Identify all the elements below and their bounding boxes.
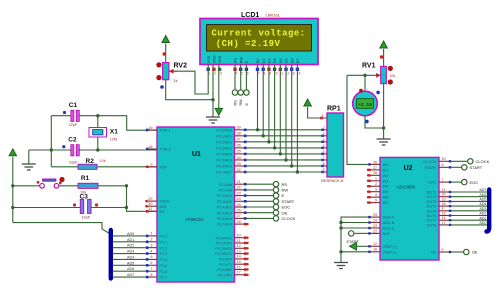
wire OUT2 to bus (AD6) (451, 196, 487, 198)
svg-text:RV2: RV2 (174, 62, 188, 69)
svg-text:RW: RW (239, 57, 243, 64)
svg-text:ADD A: ADD A (383, 216, 395, 220)
terminal RW under LCD (238, 90, 243, 95)
U1 pin XTAL2 (18) (146, 148, 157, 150)
U2 pin ADD A (25) (368, 216, 380, 218)
svg-text:4: 4 (375, 193, 377, 197)
U2 pin OUT2 (20) (439, 196, 451, 198)
power arrow down at VEE (215, 108, 223, 115)
U2 pin OUT7 (14) (439, 219, 451, 221)
svg-text:P0.4/AD4: P0.4/AD4 (216, 153, 232, 157)
U1 pin P3.2/INT0 (12) (235, 247, 247, 249)
svg-text:VDD: VDD (213, 55, 217, 63)
svg-text:ADC0808: ADC0808 (397, 185, 416, 190)
svg-text:AD7: AD7 (127, 273, 134, 277)
svg-text:5: 5 (150, 255, 152, 259)
svg-text:7: 7 (258, 72, 260, 76)
svg-text:AD2: AD2 (127, 244, 134, 248)
RP1 pin 8 (322, 165, 327, 167)
wire VREF(-) to ground rail (341, 251, 368, 253)
U1 pin P0.7/AD7 (32) (235, 171, 247, 173)
op-amp U1 body (AT89C51 MCU) (157, 127, 235, 282)
svg-text:8: 8 (442, 207, 444, 211)
svg-text:29: 29 (148, 197, 152, 201)
svg-text:D0: D0 (256, 58, 260, 63)
wire P0.5 row (247, 159, 323, 161)
svg-text:VREF(+): VREF(+) (383, 245, 399, 249)
wire left power rail (12, 157, 14, 223)
svg-text:10uF: 10uF (82, 215, 91, 219)
RP1 pin 3 (322, 135, 327, 137)
svg-text:P3.6/WR: P3.6/WR (217, 268, 232, 272)
svg-text:CLOCK: CLOCK (423, 160, 437, 164)
svg-text:P0.2/AD2: P0.2/AD2 (216, 140, 232, 144)
RV2 terminal dots (156, 62, 161, 67)
wire LCD D4 vertical (279, 65, 281, 154)
svg-text:P2.5/A13: P2.5/A13 (217, 211, 232, 215)
wire C2 row / XTAL2 (29, 149, 71, 151)
U2 pin ADD C (23) (368, 227, 380, 229)
svg-text:22pF: 22pF (69, 123, 78, 127)
wire P0.3 row (247, 147, 323, 149)
U1 pin P0.5/AD5 (34) (235, 159, 247, 161)
svg-text:IN7: IN7 (383, 201, 389, 205)
svg-text:AD1: AD1 (479, 216, 486, 220)
svg-text:16: 16 (373, 248, 377, 252)
svg-text:3: 3 (220, 72, 222, 76)
svg-text:OE: OE (282, 210, 288, 215)
svg-text:38: 38 (237, 132, 241, 136)
svg-text:AT89C51: AT89C51 (185, 217, 204, 222)
svg-text:37: 37 (237, 138, 241, 142)
svg-text:E: E (245, 103, 249, 106)
svg-text:P2.2/A10: P2.2/A10 (217, 194, 232, 198)
svg-text:P1.2: P1.2 (160, 246, 168, 250)
potentiometer RV1 (381, 66, 387, 83)
svg-text:OUT3: OUT3 (426, 200, 436, 204)
svg-text:22pF: 22pF (69, 161, 78, 165)
wire RV2 bottom to ground node (166, 80, 213, 100)
wire LCD VSS to RV2 wiper (169, 65, 208, 95)
power arrow above RV1 (380, 41, 388, 48)
U1 pin P3.7/RD (17) (235, 274, 247, 276)
svg-text:4: 4 (150, 249, 152, 253)
terminal START at ALE (354, 232, 368, 234)
svg-text:18: 18 (442, 202, 446, 206)
svg-text:15: 15 (442, 211, 446, 215)
svg-text:15: 15 (237, 260, 241, 264)
svg-text:AD6: AD6 (479, 193, 486, 197)
U1 pin P1.2 (3) (146, 247, 157, 249)
svg-text:P2.0/A8: P2.0/A8 (219, 183, 232, 187)
LCD pin state squares and pin numbers (207, 68, 301, 76)
crystal X1 (97, 116, 99, 128)
terminal OE right of U1 (247, 212, 274, 214)
svg-text:18: 18 (148, 145, 152, 149)
svg-text:32: 32 (237, 168, 241, 172)
svg-text:6: 6 (442, 163, 444, 167)
U1 pin P2.6/A14 (27) (235, 217, 247, 219)
svg-text:28: 28 (373, 171, 377, 175)
svg-text:RESPACK-8: RESPACK-8 (321, 178, 344, 183)
U1 pin P1.1 (2) (146, 241, 157, 243)
svg-text:X1: X1 (110, 128, 118, 135)
svg-text:19: 19 (148, 126, 152, 130)
svg-text:U1: U1 (192, 151, 201, 158)
svg-text:IN4: IN4 (383, 185, 389, 189)
wire LCD D2 vertical (268, 65, 270, 142)
svg-text:31: 31 (148, 207, 152, 211)
svg-text:AD0: AD0 (127, 232, 134, 236)
svg-text:P0.1/AD1: P0.1/AD1 (216, 134, 232, 138)
power arrow left rail (9, 149, 17, 156)
U2 pin CLOCK (10) (439, 160, 451, 162)
svg-text:39: 39 (237, 126, 241, 130)
svg-text:P3.3/INT1: P3.3/INT1 (215, 252, 232, 256)
svg-text:5: 5 (375, 199, 377, 203)
wire AD5 from bus to U1 P1.5 (113, 264, 147, 266)
wire OE to terminal (451, 251, 464, 253)
U2 pin VREF(-) (16) (368, 251, 380, 253)
svg-text:OE: OE (431, 251, 437, 255)
wire RV2 top (165, 44, 167, 63)
U1 pin P1.4 (5) (146, 258, 157, 260)
U2 pin OUT6 (15) (439, 215, 451, 217)
svg-text:6: 6 (150, 261, 152, 265)
junction C2/X1 (96, 148, 99, 151)
wire START to terminal (451, 166, 462, 168)
svg-text:ADD C: ADD C (383, 227, 395, 231)
RP1 pin 7 (322, 159, 327, 161)
svg-text:36: 36 (237, 144, 241, 148)
U2 pin OUT8 (17) (439, 224, 451, 226)
U1 pin P0.2/AD2 (37) (235, 141, 247, 143)
svg-text:P1.5: P1.5 (160, 264, 168, 268)
U2 pin OUT1 (21) (439, 191, 451, 193)
U1 pin RST (9) (146, 166, 157, 168)
svg-text:ADD B: ADD B (383, 221, 395, 225)
junction C1/X1 (96, 114, 99, 117)
U1 pin EA (31) (146, 210, 157, 212)
U1 pin P3.4/T0 (14) (235, 258, 247, 260)
RP1 pin 2 (322, 129, 327, 131)
svg-text:33: 33 (237, 162, 241, 166)
svg-text:P2.4/A12: P2.4/A12 (217, 206, 232, 210)
wire wiper to U2 IN0 (347, 75, 368, 164)
U1 pin P2.2/A10 (23) (235, 195, 247, 197)
wire left node vertical (50, 116, 52, 167)
svg-text:P3.4/T0: P3.4/T0 (219, 258, 232, 262)
svg-text:AD3: AD3 (127, 250, 134, 254)
U1 pin P1.0 (1) (146, 235, 157, 237)
svg-text:P1.0: P1.0 (160, 235, 168, 239)
svg-text:D5: D5 (285, 58, 289, 63)
power arrow +5V above RV2 (162, 36, 170, 43)
svg-text:EOC: EOC (470, 180, 479, 185)
wire RV1 wiper row (347, 74, 381, 76)
svg-text:EOC: EOC (428, 181, 436, 185)
svg-text:AD2: AD2 (479, 212, 486, 216)
svg-text:AD5: AD5 (479, 198, 486, 202)
U2 pin IN5 (3) (368, 191, 380, 193)
wire LCD VEE down (218, 65, 220, 109)
svg-text:RST: RST (160, 165, 168, 169)
U1 pin P1.6 (7) (146, 270, 157, 272)
voltmeter probe (364, 75, 366, 91)
svg-text:P1.7: P1.7 (160, 276, 168, 280)
svg-text:C1: C1 (69, 102, 78, 109)
junction C2 left branch (50, 148, 53, 151)
RP1 pin 1 wire to power arrow (308, 107, 327, 118)
U2 pin OUT4 (18) (439, 205, 451, 207)
LCD pin name labels (rotated) (207, 55, 300, 63)
svg-text:U2: U2 (404, 165, 413, 172)
svg-text:26: 26 (237, 209, 241, 213)
terminal E right of U1 (247, 195, 274, 197)
U2 pin IN2 (28) (368, 174, 380, 176)
wire AD3 from bus to U1 P1.3 (113, 253, 147, 255)
svg-text:START: START (346, 239, 359, 244)
svg-text:P2.7/A15: P2.7/A15 (217, 223, 232, 227)
svg-text:25: 25 (237, 203, 241, 207)
svg-text:CLOCK: CLOCK (282, 216, 296, 221)
svg-text:12: 12 (373, 242, 377, 246)
wire LCD RW to terminal (240, 65, 242, 90)
U2 pin IN0 (26) (368, 163, 380, 165)
svg-text:AD3: AD3 (479, 207, 486, 211)
wire P0.7 row (247, 171, 323, 173)
svg-text:IN0: IN0 (383, 163, 389, 167)
svg-text:P3.1/TXD: P3.1/TXD (216, 242, 232, 246)
svg-text:22: 22 (373, 229, 377, 233)
RV1 terminal dots and value (388, 66, 393, 71)
svg-text:P3.5/T1: P3.5/T1 (219, 263, 232, 267)
svg-text:OUT6: OUT6 (426, 214, 436, 218)
U2 pin IN1 (27) (368, 169, 380, 171)
svg-text:D4: D4 (279, 58, 283, 63)
svg-text:START: START (470, 165, 483, 170)
U1 pin ALE (30) (146, 205, 157, 207)
wire AD7 from bus to U1 P1.7 (113, 276, 147, 278)
wire LCD D0 vertical (257, 65, 259, 130)
svg-text:14: 14 (442, 216, 446, 220)
wire LCD D1 vertical (262, 65, 264, 136)
svg-text:R1: R1 (81, 175, 90, 182)
terminal RS under LCD (232, 90, 237, 95)
U2 pin IN3 (1) (368, 180, 380, 182)
svg-text:3: 3 (375, 188, 377, 192)
svg-text:9: 9 (442, 248, 444, 252)
U1 pin P3.1/TXD (11) (235, 242, 247, 244)
svg-text:E: E (282, 193, 285, 198)
svg-text:24: 24 (373, 218, 377, 222)
svg-text:XTAL1: XTAL1 (160, 129, 171, 133)
svg-text:10k: 10k (100, 159, 106, 163)
wire AD6 from bus to U1 P1.6 (113, 270, 147, 272)
svg-text:21: 21 (442, 188, 446, 192)
svg-text:RS: RS (234, 58, 238, 64)
U1 pin P0.4/AD4 (35) (235, 153, 247, 155)
svg-text:2: 2 (150, 238, 152, 242)
svg-text:OE: OE (472, 250, 478, 255)
svg-text:P2.6/A14: P2.6/A14 (217, 217, 232, 221)
svg-text:13: 13 (237, 249, 241, 253)
svg-text:2: 2 (214, 72, 216, 76)
power arrow at VREF(+) (357, 245, 368, 247)
ground under LCD (206, 117, 220, 123)
svg-text:OUT2: OUT2 (426, 195, 436, 199)
svg-text:28: 28 (237, 220, 241, 224)
svg-text:17: 17 (237, 271, 241, 275)
svg-text:RS: RS (234, 100, 238, 106)
svg-text:27: 27 (373, 166, 377, 170)
LCD LCD1 body (200, 19, 318, 65)
wire AD4 from bus to U1 P1.4 (113, 258, 147, 260)
junction VDD/RV2-bottom (211, 98, 214, 101)
svg-text:RW: RW (282, 188, 289, 193)
svg-text:AD6: AD6 (127, 267, 134, 271)
svg-text:34: 34 (237, 156, 241, 160)
U1 pin P1.3 (4) (146, 253, 157, 255)
RP1 pin 4 (322, 141, 327, 143)
svg-text:6: 6 (247, 72, 249, 76)
svg-text:P0.3/AD3: P0.3/AD3 (216, 146, 232, 150)
svg-text:16: 16 (237, 265, 241, 269)
U1 pin P2.5/A13 (26) (235, 212, 247, 214)
svg-text:AD7: AD7 (479, 188, 486, 192)
U1 pin P3.0/RXD (10) (235, 237, 247, 239)
svg-text:4: 4 (235, 72, 237, 76)
U1 pin P3.3/INT1 (13) (235, 253, 247, 255)
svg-text:R2: R2 (86, 158, 95, 165)
svg-text:PSEN: PSEN (160, 200, 170, 204)
RP1 pin 6 (322, 153, 327, 155)
svg-text:23: 23 (373, 224, 377, 228)
wire CLOCK to terminal (451, 160, 468, 162)
terminal START right of U1 (247, 200, 274, 202)
U2 pin OE (9) (439, 251, 451, 253)
svg-text:12M: 12M (110, 138, 117, 142)
svg-text:AD4: AD4 (127, 255, 134, 259)
terminal E under LCD (244, 90, 249, 95)
svg-text:P3.7/RD: P3.7/RD (218, 273, 232, 277)
svg-text:START: START (282, 199, 295, 204)
svg-text:P3.2/INT0: P3.2/INT0 (215, 247, 232, 251)
wire RV1 bottom to ground (383, 84, 385, 139)
U1 pin P2.3/A11 (24) (235, 200, 247, 202)
svg-text:2: 2 (375, 182, 377, 186)
svg-text:25: 25 (373, 213, 377, 217)
svg-text:24: 24 (237, 197, 241, 201)
svg-text:IN6: IN6 (383, 196, 389, 200)
wire power rail to left bus (13, 223, 110, 234)
svg-text:VSS: VSS (207, 55, 211, 63)
svg-text:LM016L: LM016L (266, 13, 281, 18)
U2 pin OUT5 (8) (439, 210, 451, 212)
U1 pin P2.0/A8 (21) (235, 183, 247, 185)
wire C3 right to EA (91, 207, 126, 209)
wire EOC to terminal (451, 181, 462, 183)
svg-text:OUT5: OUT5 (426, 209, 436, 213)
svg-text:EA: EA (160, 210, 165, 214)
svg-text:P0.7/AD7: P0.7/AD7 (216, 171, 232, 175)
svg-text:AD5: AD5 (127, 261, 134, 265)
svg-text:VEE: VEE (218, 55, 222, 63)
U2 pin IN4 (2) (368, 185, 380, 187)
wire C1 left (51, 115, 71, 117)
U1 pin P0.1/AD1 (38) (235, 135, 247, 137)
svg-text:IN1: IN1 (383, 168, 389, 172)
U1 pin XTAL1 (19) (146, 129, 157, 131)
LCD screen (207, 25, 312, 52)
power arrow above RP1 (304, 99, 312, 106)
svg-text:9: 9 (269, 72, 271, 76)
svg-text:RS: RS (282, 182, 288, 187)
U2 pin IN7 (5) (368, 202, 380, 204)
svg-text:1: 1 (209, 72, 211, 76)
svg-text:1k: 1k (174, 79, 178, 83)
svg-text:23: 23 (237, 191, 241, 195)
svg-text:P2.1/A9: P2.1/A9 (219, 189, 232, 193)
wire LCD E to terminal (245, 65, 247, 90)
svg-text:22: 22 (237, 186, 241, 190)
wire R2 to RST (97, 166, 157, 168)
svg-text:3: 3 (150, 243, 152, 247)
svg-text:P1.1: P1.1 (160, 240, 168, 244)
svg-text:VREF(-): VREF(-) (383, 250, 398, 254)
svg-text:10k: 10k (390, 74, 396, 78)
U1 pin P0.0/AD0 (39) (235, 129, 247, 131)
svg-text:10: 10 (442, 157, 446, 161)
svg-text:XTAL2: XTAL2 (160, 148, 171, 152)
wire P0.4 row (247, 153, 323, 155)
svg-text:RV1: RV1 (362, 62, 376, 69)
wire LCD D3 vertical (274, 65, 276, 148)
svg-text:1: 1 (375, 177, 377, 181)
wire OUT4 to bus (AD4) (451, 205, 487, 207)
terminal EOC right of U1 (247, 206, 274, 208)
RP1 pin 9 (322, 171, 327, 173)
svg-text:12: 12 (237, 244, 241, 248)
U2 pin OUT3 (19) (439, 200, 451, 202)
svg-text:11: 11 (237, 239, 241, 243)
wire AD2 from bus to U1 P1.2 (113, 247, 147, 249)
svg-text:10: 10 (237, 234, 241, 238)
svg-text:D6: D6 (290, 58, 294, 63)
svg-text:P0.0/AD0: P0.0/AD0 (216, 128, 232, 132)
svg-text:5: 5 (241, 72, 243, 76)
svg-text:RW: RW (239, 99, 243, 106)
svg-text:+2.19: +2.19 (358, 102, 372, 108)
svg-text:19: 19 (442, 197, 446, 201)
svg-text:26: 26 (373, 160, 377, 164)
wire P0.0 row (247, 129, 323, 131)
U1 pin P1.7 (8) (146, 276, 157, 278)
wire AD0 from bus to U1 P1.0 (113, 235, 147, 237)
svg-text:P2.3/A11: P2.3/A11 (217, 200, 232, 204)
svg-text:AD1: AD1 (127, 238, 134, 242)
wire LCD D5 vertical (285, 65, 287, 160)
svg-text:P1.3: P1.3 (160, 252, 168, 256)
svg-text:27: 27 (237, 214, 241, 218)
svg-text:P0.5/AD5: P0.5/AD5 (216, 159, 232, 163)
svg-text:35: 35 (237, 150, 241, 154)
terminal CLOCK right of U1 (247, 217, 274, 219)
U1 pin P3.5/T1 (15) (235, 263, 247, 265)
U2 pin ADD B (24) (368, 222, 380, 224)
wire RV1 top (383, 49, 385, 66)
U2 pin START (6) (439, 166, 451, 168)
